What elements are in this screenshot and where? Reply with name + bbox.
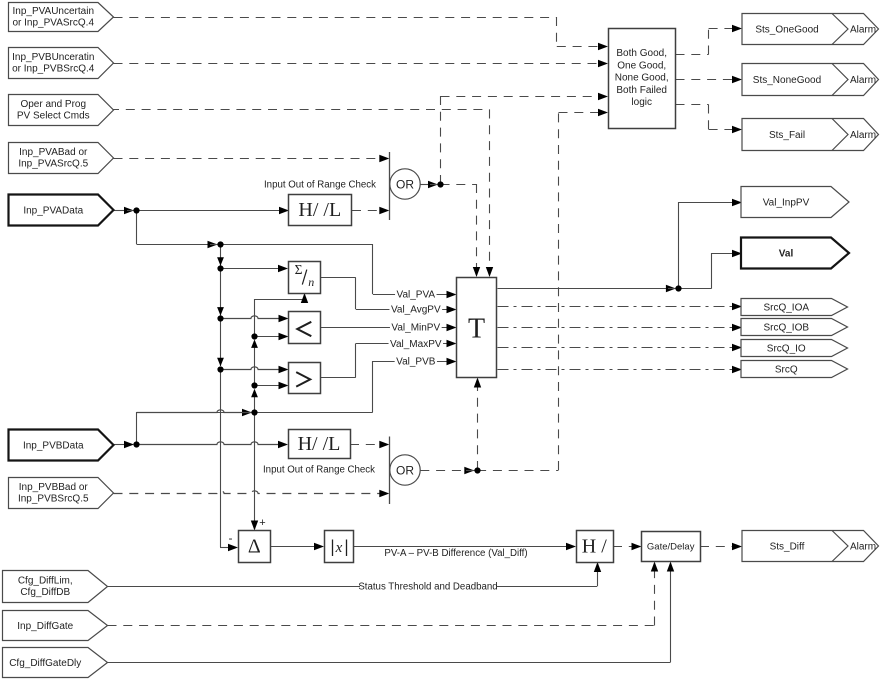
svg-text:Sts_NoneGood: Sts_NoneGood	[753, 75, 821, 86]
svg-text:Σ: Σ	[295, 262, 303, 277]
svg-text:Inp_DiffGate: Inp_DiffGate	[17, 621, 73, 632]
svg-text:Val_MaxPV: Val_MaxPV	[390, 339, 442, 350]
svg-text:Sts_Fail: Sts_Fail	[769, 130, 805, 141]
svg-text:One Good,: One Good,	[617, 60, 666, 71]
svg-text:Inp_PVABad or: Inp_PVABad or	[19, 147, 88, 158]
svg-text:Both Good,: Both Good,	[616, 48, 667, 59]
svg-text:Alarm: Alarm	[850, 75, 876, 86]
svg-text:Input Out of Range Check: Input Out of Range Check	[263, 465, 375, 476]
svg-text:None Good,: None Good,	[615, 73, 669, 84]
svg-text:Δ: Δ	[248, 536, 261, 558]
svg-text:logic: logic	[631, 97, 652, 108]
svg-text:T: T	[468, 314, 485, 345]
svg-text:OR: OR	[396, 177, 414, 191]
svg-text:Sts_OneGood: Sts_OneGood	[755, 25, 818, 36]
svg-text:or Inp_PVBSrcQ.4: or Inp_PVBSrcQ.4	[12, 63, 95, 74]
svg-text:H /: H /	[582, 535, 607, 557]
svg-text:Val_AvgPV: Val_AvgPV	[391, 304, 441, 315]
svg-text:SrcQ_IOA: SrcQ_IOA	[763, 303, 809, 314]
svg-text:Sts_Diff: Sts_Diff	[770, 542, 805, 553]
svg-text:Status Threshold and Deadband: Status Threshold and Deadband	[358, 582, 497, 593]
svg-text:Inp_PVAData: Inp_PVAData	[23, 206, 83, 217]
svg-text:Oper and Prog: Oper and Prog	[20, 99, 86, 110]
svg-text:Alarm: Alarm	[850, 130, 876, 141]
svg-text:Inp_PVBBad or: Inp_PVBBad or	[19, 482, 89, 493]
svg-text:Alarm: Alarm	[850, 542, 876, 553]
svg-text:Gate/Delay: Gate/Delay	[647, 542, 695, 553]
svg-text:OR: OR	[396, 463, 414, 477]
svg-text:Input Out of Range Check: Input Out of Range Check	[264, 180, 376, 191]
svg-text:PV-A – PV-B Difference (Val_Di: PV-A – PV-B Difference (Val_Diff)	[384, 548, 527, 559]
svg-text:H/ /L: H/ /L	[298, 199, 341, 221]
svg-text:Val: Val	[779, 249, 794, 260]
svg-text:SrcQ: SrcQ	[775, 365, 798, 376]
svg-text:Cfg_DiffGateDly: Cfg_DiffGateDly	[9, 658, 81, 669]
svg-text:+: +	[259, 517, 265, 529]
svg-text:x: x	[335, 540, 343, 556]
svg-text:SrcQ_IO: SrcQ_IO	[767, 344, 806, 355]
svg-text:Cfg_DiffDB: Cfg_DiffDB	[20, 587, 70, 598]
svg-text:Both Failed: Both Failed	[616, 85, 667, 96]
svg-text:Val_MinPV: Val_MinPV	[391, 322, 440, 333]
svg-text:SrcQ_IOB: SrcQ_IOB	[763, 323, 809, 334]
svg-text:Val_InpPV: Val_InpPV	[763, 198, 810, 209]
svg-text:Alarm: Alarm	[850, 25, 876, 36]
svg-text:Inp_PVAUncertain: Inp_PVAUncertain	[12, 6, 94, 17]
svg-text:Inp_PVBUnceratin: Inp_PVBUnceratin	[12, 52, 94, 63]
svg-text:H/ /L: H/ /L	[298, 433, 341, 455]
svg-text:PV Select Cmds: PV Select Cmds	[17, 110, 90, 121]
svg-text:or Inp_PVASrcQ.4: or Inp_PVASrcQ.4	[12, 17, 94, 28]
svg-text:Val_PVA: Val_PVA	[397, 289, 436, 300]
svg-text:Cfg_DiffLim,: Cfg_DiffLim,	[18, 575, 73, 586]
svg-text:-: -	[229, 531, 233, 545]
svg-text:Val_PVB: Val_PVB	[396, 356, 436, 367]
svg-text:n: n	[308, 275, 314, 289]
svg-text:Inp_PVASrcQ.5: Inp_PVASrcQ.5	[18, 158, 88, 169]
svg-text:Inp_PVBData: Inp_PVBData	[23, 441, 84, 452]
svg-text:Inp_PVBSrcQ.5: Inp_PVBSrcQ.5	[18, 493, 89, 504]
